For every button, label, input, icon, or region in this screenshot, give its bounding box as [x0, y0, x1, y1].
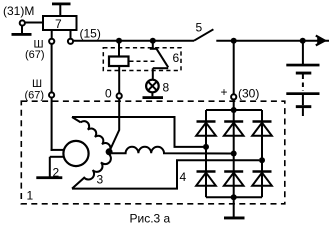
node junction bus-relay coil — [116, 38, 122, 44]
diode VD6 bottom col3 — [252, 172, 272, 186]
svg-text:(67): (67) — [25, 90, 45, 102]
brush lower with ground wire — [50, 157, 64, 177]
stator phase C bottom line — [72, 160, 259, 188]
wire main bus 15 — [73, 40, 194, 42]
svg-text:0: 0 — [105, 87, 112, 101]
diode VD2 top col2 — [224, 122, 244, 136]
wire 0 to star point — [110, 99, 119, 151]
label 1 — [27, 189, 34, 203]
wire Ш67 vertical — [51, 44, 53, 93]
label 6 — [173, 51, 180, 65]
wire 30 to rectifier bus — [233, 100, 235, 111]
wire contact to lamp — [152, 68, 154, 80]
node star point — [106, 149, 112, 155]
ground of lamp 8 — [143, 92, 164, 99]
label (31)M terminal — [3, 4, 34, 18]
relay coil 6 — [109, 41, 129, 66]
label 2 — [53, 166, 60, 180]
node Ш (67) lower terminal — [49, 92, 54, 97]
svg-text:4: 4 — [180, 170, 187, 184]
relay 6 dashed box — [103, 48, 181, 71]
diode VD3 top col3 — [252, 122, 272, 136]
svg-text:6: 6 — [173, 51, 180, 65]
switch SA5 — [194, 29, 213, 40]
arrow to loads — [316, 36, 326, 46]
pin 15 of regulator 7 — [68, 30, 73, 44]
rectifier column 1 wire — [205, 110, 207, 197]
stator phase C winding arc — [72, 155, 111, 189]
label Ш (67) lower — [25, 78, 45, 102]
label 3 — [97, 173, 104, 187]
label (15) — [80, 27, 101, 41]
ground of rectifier — [224, 197, 245, 219]
pin Ш of regulator 7 — [49, 30, 54, 44]
rotor slip rings 2 — [63, 141, 88, 166]
svg-text:+: + — [221, 85, 228, 99]
ground above regulator 7 — [52, 3, 71, 17]
svg-text:Рис.3 а: Рис.3 а — [130, 212, 171, 226]
relay contact 6 — [150, 41, 168, 68]
wire bus right of switch — [216, 40, 329, 42]
regulator U7 box — [43, 16, 77, 31]
label 8 — [163, 81, 170, 95]
svg-text:1: 1 — [27, 189, 34, 203]
relay armature dashed link — [130, 60, 157, 62]
label Ш (67) upper — [25, 39, 45, 62]
node bus top center — [231, 107, 237, 113]
node junction bus-30 — [231, 38, 237, 44]
diode VD4 bottom col1 — [196, 172, 216, 186]
label 4 — [180, 170, 187, 184]
svg-text:8: 8 — [163, 81, 170, 95]
svg-text:(15): (15) — [80, 27, 101, 41]
wire (31)M to regulator 7 — [25, 22, 43, 24]
diode VD1 top col1 — [196, 122, 216, 136]
node (31)M — [20, 20, 25, 25]
ground of brush 2 — [36, 176, 62, 179]
label 0 — [105, 87, 112, 101]
dashed box generator 1 — [21, 101, 285, 204]
wire 30 terminal stem — [233, 41, 235, 95]
node 30 terminal — [231, 94, 236, 99]
rectifier top bus — [206, 109, 262, 111]
node junction bus-relay contact — [150, 38, 156, 44]
ground under (31)M — [12, 26, 32, 36]
wire coil to 0 terminal — [118, 66, 120, 93]
stator phase B coil 3 — [112, 147, 231, 154]
svg-text:2: 2 — [53, 166, 60, 180]
node phase A input — [203, 144, 209, 150]
battery GB — [286, 43, 319, 116]
rectifier bottom bus — [206, 196, 262, 198]
svg-text:(31)М: (31)М — [3, 4, 34, 18]
wire Ш67 to brush — [51, 98, 64, 151]
label (30) — [238, 87, 259, 101]
svg-text:Ш: Ш — [32, 78, 42, 90]
svg-text:5: 5 — [196, 21, 203, 35]
label + — [221, 85, 228, 99]
svg-text:7: 7 — [55, 17, 62, 31]
svg-text:(30): (30) — [238, 87, 259, 101]
label 5 — [196, 21, 203, 35]
node phase B input — [231, 151, 237, 157]
rectifier column 3 wire — [261, 110, 263, 197]
stator phase A top line — [72, 117, 203, 147]
node bus bottom center — [231, 194, 237, 200]
svg-text:3: 3 — [97, 173, 104, 187]
svg-text:(67): (67) — [25, 49, 45, 61]
node junction bus-battery — [300, 38, 306, 44]
lamp HL8 — [146, 80, 159, 93]
node 0 terminal — [117, 93, 122, 98]
caption — [130, 212, 171, 226]
node phase C input — [259, 157, 265, 163]
stator phase A winding arc — [72, 117, 110, 152]
rectifier column 2 wire — [233, 110, 235, 197]
diode VD5 bottom col2 — [224, 172, 244, 186]
